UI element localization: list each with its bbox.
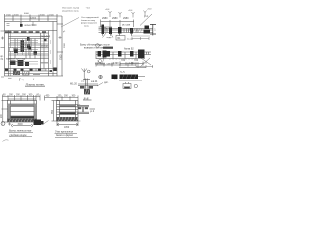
- svg-text:7500: 7500: [60, 54, 63, 60]
- view1 bottom dimension: [11, 124, 33, 127]
- view1 hatched bottom band: [8, 119, 37, 122]
- beam 1 diagonal leader: [140, 14, 152, 26]
- svg-text:12000: 12000: [30, 18, 37, 20]
- view1 caption: [8, 130, 32, 137]
- view2 caption: [55, 131, 74, 138]
- small framed label under beam 1: [116, 36, 125, 41]
- long note row under beams left: [80, 44, 113, 49]
- svg-text:2980: 2980: [102, 17, 108, 20]
- svg-text:доп.: доп.: [104, 82, 109, 84]
- section B-B flange: [78, 79, 98, 89]
- beam 2 small notes above: [124, 49, 134, 51]
- level marks above beam 1: [109, 11, 147, 18]
- lower equipment blobs: [10, 60, 29, 66]
- svg-text:Q=3,2т: Q=3,2т: [41, 46, 49, 48]
- svg-text:св. шов: св. шов: [122, 25, 131, 27]
- svg-text:Ось подкрановой: Ось подкрановой: [81, 16, 99, 19]
- view2 bottom dimension with arrows: [57, 122, 78, 127]
- section B-B hatched square: [84, 89, 90, 95]
- svg-text:Б-Б: Б-Б: [83, 96, 89, 100]
- right cells faint lines: [41, 40, 51, 64]
- svg-text:3000: 3000: [64, 42, 66, 48]
- beam 1 top dimension line: [101, 20, 135, 28]
- svg-text:Балка монтажная: Балка монтажная: [8, 130, 32, 133]
- view2 left vertical dim with rotated text: [52, 101, 60, 122]
- svg-text:колея 3000: колея 3000: [25, 25, 38, 27]
- svg-text:3000: 3000: [40, 15, 46, 17]
- svg-text:720: 720: [134, 59, 139, 62]
- svg-text:на св.: на св.: [127, 39, 133, 41]
- sheet title text top center: [62, 8, 80, 13]
- beam 2 leader to right: [141, 58, 152, 67]
- row 3 dimension line: [119, 62, 146, 68]
- beam 1 elevation lines: [99, 27, 153, 33]
- circled mark left: [1, 122, 5, 126]
- axis bubble in plan: [9, 47, 13, 51]
- view2 right extension lines: [78, 105, 81, 121]
- svg-text:950: 950: [51, 109, 54, 114]
- svg-text:уп.1: уп.1: [144, 16, 149, 18]
- section B-B hatch plates: [80, 86, 93, 89]
- svg-text:машинного зала: машинного зала: [62, 10, 79, 12]
- main plan top dimension line: [5, 14, 63, 22]
- left small symbols row3: [82, 69, 103, 81]
- svg-text:720: 720: [121, 59, 126, 62]
- beam 1 support blobs: [102, 25, 151, 35]
- beam 1 section cut symbol right: [150, 24, 156, 36]
- svg-text:2980: 2980: [112, 17, 118, 20]
- main plan inner horizontals: [5, 31, 58, 74]
- beam 1 hanger marks below: [103, 33, 132, 36]
- view1 left vertical dimension: [2, 101, 9, 123]
- bottom band tick row: [6, 69, 46, 75]
- caption under 5-5 bar: [123, 82, 138, 89]
- svg-text:зала: зала: [84, 25, 89, 27]
- beam 2 node blobs: [98, 50, 145, 59]
- view1 lower flange band: [11, 116, 35, 118]
- view2 hatched bottom band: [57, 117, 79, 121]
- dark hatched bar: [119, 75, 145, 81]
- svg-text:балки к ферме: балки к ферме: [56, 134, 74, 137]
- svg-text:1500: 1500: [6, 15, 12, 17]
- view1 end hatched strips: [8, 104, 37, 119]
- svg-text:монтажн. узел А: монтажн. узел А: [95, 63, 114, 66]
- wall hatch row along y31-33: [5, 31, 46, 33]
- view1 right dark blob: [34, 120, 42, 126]
- main plan second dimension level: [5, 18, 58, 20]
- main plan inner verticals: [9, 22, 54, 77]
- extra cluster knots: [29, 47, 32, 50]
- leader from note into plan: [61, 18, 79, 28]
- main plan bottom hatched rects: [5, 68, 57, 76]
- small dimension texts above main plan: [6, 13, 55, 20]
- circled mark left of note row: [96, 44, 100, 48]
- svg-text:балки по низу: балки по низу: [81, 20, 96, 22]
- svg-text:тельфер: тельфер: [41, 35, 51, 38]
- svg-text:6000: 6000: [24, 13, 30, 15]
- view2 top dimensions: [45, 96, 79, 101]
- double vertical left: [9, 31, 11, 77]
- left margin marks: [1, 31, 5, 77]
- beam 2 dimension line below: [96, 62, 136, 67]
- tick below plan: [8, 77, 12, 79]
- svg-text:3000: 3000: [14, 15, 20, 17]
- svg-text:Балку обетонировать после: Балку обетонировать после: [80, 44, 110, 46]
- plan top band small details: [7, 22, 34, 28]
- main plan right vertical dimension: [57, 16, 63, 76]
- view2 rectangle: [57, 101, 79, 122]
- svg-text:Узел монт. балки: Узел монт. балки: [62, 8, 80, 10]
- svg-text:3000: 3000: [18, 124, 24, 126]
- svg-text:Планы монт.: Планы монт.: [25, 82, 46, 86]
- svg-text:подв.: подв.: [107, 37, 113, 39]
- svg-text:ферм покрытия: ферм покрытия: [81, 22, 98, 25]
- equipment cluster gray texture: [10, 39, 38, 56]
- annotation note top right: [81, 16, 99, 27]
- svg-text:5-5: 5-5: [120, 70, 125, 74]
- view2 upper flange band: [60, 105, 76, 107]
- tiny text right of B-B: [97, 83, 103, 87]
- equipment cluster dark blobs: [14, 37, 37, 55]
- view2 lower flange band: [60, 112, 76, 114]
- note leader: [101, 26, 107, 29]
- view1 top dimensions: [3, 95, 41, 101]
- svg-text:1500: 1500: [49, 15, 55, 17]
- beam 2 left end extra detail: [103, 51, 107, 58]
- small dark detail left of view2 bottom: [40, 121, 44, 125]
- svg-text:шв.24: шв.24: [91, 81, 98, 83]
- svg-text:М1:20: М1:20: [70, 83, 78, 86]
- view1 rectangle: [8, 101, 37, 123]
- svg-text:2980: 2980: [123, 17, 129, 20]
- svg-text:1050: 1050: [64, 127, 70, 129]
- svg-text:анк: анк: [81, 81, 84, 83]
- svg-text:уз.2: уз.2: [90, 111, 95, 113]
- svg-text:балка Б2: балка Б2: [124, 49, 134, 51]
- beam 1 under leaders and notes: [103, 33, 114, 38]
- main plan view outer rectangle: [5, 22, 58, 77]
- svg-text:Г→: Г→: [18, 78, 24, 82]
- lower small I-beam detail: [77, 106, 95, 114]
- beam 2 lines: [96, 51, 151, 59]
- svg-text:средняя опора: средняя опора: [10, 134, 28, 137]
- bold strip in note row2: [103, 47, 113, 49]
- view1 upper flange band: [11, 104, 35, 106]
